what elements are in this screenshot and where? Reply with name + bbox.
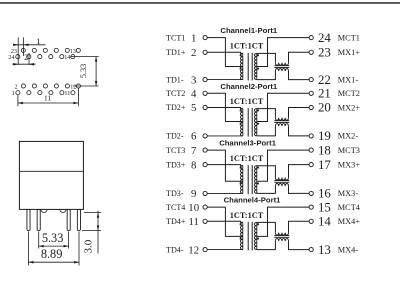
wire choke L4b to pin 13 [289,241,310,250]
choke L4 winding b [275,239,288,241]
T4 primary polarity dot (top half) [240,223,242,225]
pin 14 terminal [309,219,313,223]
svg-text:TD1+: TD1+ [166,48,186,57]
T2 secondary polarity dot (bottom half) [257,123,259,125]
svg-text:22: 22 [318,73,331,87]
T2 primary polarity dot (top half) [240,110,242,112]
pin 19 terminal [309,134,313,138]
wire T2 secondary bottom to choke L2b [257,126,276,136]
svg-text:3: 3 [191,74,196,86]
wire pin 3 to T1 primary bottom [207,79,243,81]
pin 9 terminal [203,191,207,195]
pin 18 terminal [309,148,313,152]
svg-text:12: 12 [188,244,199,256]
T3 primary polarity dot (top half) [240,167,242,169]
pin 2 terminal [203,50,207,54]
transformer T4 core [248,222,252,251]
wire pin 12 to T4 primary bottom [207,249,243,251]
package pin 3 (side view) [67,209,70,230]
svg-text:1CT:1CT: 1CT:1CT [230,97,264,106]
transformer T3 primary winding [240,166,242,194]
svg-text:20: 20 [318,101,331,115]
transformer T2 core [248,108,252,137]
svg-text:Channel3-Port1: Channel3-Port1 [219,139,277,148]
wire T4 secondary bottom to choke L4b [257,241,276,250]
transformer T2 secondary winding [254,109,256,136]
svg-text:1: 1 [12,90,15,97]
wire choke L3a to pin 17 [289,165,310,178]
svg-text:11: 11 [44,94,52,103]
pin 22 terminal [309,78,313,82]
choke L2 winding a [275,118,288,120]
dimension 1 (pin stagger) [13,37,46,65]
svg-text:9: 9 [191,188,196,200]
wire T1 secondary top to choke L1a [257,53,276,62]
svg-text:Channel4-Port1: Channel4-Port1 [224,196,282,205]
wire pin 7 to T3 primary centre tap [207,150,243,181]
transformer T1 core [248,53,252,81]
svg-text:7: 7 [191,145,197,157]
svg-text:13: 13 [318,243,331,257]
svg-text:16: 16 [318,187,331,201]
wire pin 10 to T4 primary centre tap [207,207,243,236]
pin 4 terminal [203,91,207,95]
dimension 3.0 (pin length) [82,211,101,254]
svg-text:1CT:1CT: 1CT:1CT [230,211,264,220]
pin 6 terminal [203,134,207,138]
svg-text:MCT4: MCT4 [338,203,361,212]
package pin 4 (side view) [77,209,80,230]
footprint pad row pins 1..11 [16,91,75,95]
pin 5 terminal [203,105,207,109]
svg-text:11: 11 [64,90,70,97]
svg-text:MCT1: MCT1 [338,33,360,42]
svg-text:8.89: 8.89 [41,247,63,261]
choke L4 winding a [275,233,288,235]
svg-text:MCT2: MCT2 [338,89,360,98]
svg-text:TD4+: TD4+ [166,217,186,226]
pin 7 terminal [203,148,207,152]
standoff bump right [60,209,66,212]
svg-text:MX3+: MX3+ [338,160,361,169]
svg-text:8: 8 [191,159,196,171]
transformer T2 primary winding [240,109,242,136]
svg-text:TD3+: TD3+ [166,160,186,169]
pin 24 terminal [309,36,313,40]
dimension 2 (pin pitch) [13,53,36,65]
choke L2 core [274,121,289,123]
transformer T3 secondary winding [254,166,256,194]
wire pin 2 to T1 primary top [207,52,243,53]
choke L1 winding a [275,63,288,65]
package pin 2 (side view) [37,209,40,230]
T4 secondary polarity dot (top half) [257,223,259,225]
wire pin 6 to T2 primary bottom [207,135,243,137]
svg-text:1: 1 [191,32,196,44]
pin 12 terminal [203,248,207,252]
T2 secondary polarity dot (top half) [257,110,259,112]
wire T4 secondary top to choke L4a [257,222,276,232]
transformer T1 secondary winding [254,53,256,79]
pin 16 terminal [309,191,313,195]
pin 11 terminal [203,219,207,223]
package pin 1 (side view) [27,209,30,230]
standoff bump left [41,209,47,212]
svg-text:MX4-: MX4- [338,245,359,254]
svg-text:10: 10 [188,202,199,214]
svg-text:TD3-: TD3- [166,189,184,198]
wire choke L2b to pin 19 [289,126,310,136]
svg-text:Channel1-Port1: Channel1-Port1 [220,26,278,35]
wire T1 secondary centre tap to pin 24 [257,38,309,67]
svg-text:TD2-: TD2- [166,132,184,141]
transformer T3 core [248,165,252,194]
footprint pad row pins 24..14 [16,55,75,59]
footprint pad row pins 2..12 [21,84,80,88]
dimension 8.89 (outer pin spacing) [29,231,80,265]
wire pin 1 to T1 primary centre tap [207,38,243,67]
svg-text:1CT:1CT: 1CT:1CT [230,41,264,50]
wire choke L3b to pin 16 [289,186,310,194]
svg-text:TCT4: TCT4 [166,203,185,212]
wire T3 secondary bottom to choke L3b [257,186,276,194]
svg-text:14: 14 [64,54,70,61]
svg-text:6: 6 [191,131,197,143]
transformer T4 primary winding [240,222,242,249]
wire pin 4 to T2 primary centre tap [207,93,243,121]
pin 8 terminal [203,163,207,167]
T3 primary polarity dot (bottom half) [240,183,242,185]
choke L1 winding b [275,69,288,71]
svg-text:2: 2 [24,53,28,62]
pin 17 terminal [309,163,313,167]
choke L3 core [274,181,289,183]
svg-text:24: 24 [318,31,331,45]
T1 primary polarity dot (top half) [240,54,242,56]
package lid seam [19,170,83,172]
svg-text:Channel2-Port1: Channel2-Port1 [220,82,278,91]
choke L1 core [274,66,289,68]
T1 secondary polarity dot (top half) [257,54,259,56]
T1 primary polarity dot (bottom half) [240,68,242,70]
pin 3 terminal [203,78,207,82]
svg-text:TD2+: TD2+ [166,103,186,112]
wire pin 8 to T3 primary top [207,165,243,166]
choke L3 winding b [275,184,288,186]
T3 secondary polarity dot (bottom half) [257,183,259,185]
wire pin 11 to T4 primary top [207,221,243,222]
wire T4 secondary centre tap to pin 15 [257,207,309,236]
dimension 11 (footprint width) [18,88,79,106]
wire T1 secondary bottom to choke L1b [257,71,276,80]
wire T2 secondary top to choke L2a [257,109,276,118]
svg-text:4: 4 [191,88,197,100]
footprint pad row pins 23..13 [21,48,80,52]
choke L2 winding b [275,124,288,126]
pin 20 terminal [309,105,313,109]
dimension 5.33 (row gap, footprint) [71,57,99,86]
T4 primary polarity dot (bottom half) [240,238,242,240]
T3 secondary polarity dot (top half) [257,167,259,169]
wire choke L4a to pin 14 [289,221,310,232]
T1 secondary polarity dot (bottom half) [257,68,259,70]
pin 23 terminal [309,50,313,54]
svg-text:2: 2 [191,47,196,59]
choke L3 winding a [275,178,288,180]
svg-text:MX1+: MX1+ [338,48,361,57]
wire T2 secondary centre tap to pin 21 [257,93,309,121]
svg-text:MX1-: MX1- [338,75,359,84]
transformer T1 primary winding [240,53,242,79]
svg-text:TD1-: TD1- [166,75,184,84]
svg-text:23: 23 [318,46,331,60]
svg-text:5.33: 5.33 [79,64,88,78]
pin 1 terminal [203,36,207,40]
svg-text:3.0: 3.0 [83,239,95,253]
svg-text:1CT:1CT: 1CT:1CT [230,154,264,163]
wire pin 5 to T2 primary top [207,108,243,109]
svg-text:MX4+: MX4+ [338,217,361,226]
package body outline [19,141,83,209]
svg-text:18: 18 [318,143,331,157]
svg-text:24: 24 [8,54,14,61]
svg-text:TCT1: TCT1 [166,33,185,42]
choke L4 core [274,236,289,238]
svg-text:21: 21 [318,87,331,101]
pin 13 terminal [309,248,313,252]
svg-text:5.33: 5.33 [42,231,64,245]
wire choke L2a to pin 20 [289,108,310,118]
wire choke L1b to pin 22 [289,71,310,80]
svg-text:11: 11 [188,216,198,228]
svg-text:MX3-: MX3- [338,189,359,198]
svg-text:MX2-: MX2- [338,132,359,141]
svg-text:MX2+: MX2+ [338,103,361,112]
svg-text:5: 5 [191,102,196,114]
svg-text:13: 13 [70,48,76,55]
transformer T4 secondary winding [254,222,256,249]
dimension 5.33 (inner pin spacing) [39,231,69,249]
pin 10 terminal [203,205,207,209]
wire pin 9 to T3 primary bottom [207,192,243,194]
svg-text:17: 17 [318,158,331,172]
wire choke L1a to pin 23 [289,52,310,62]
svg-text:14: 14 [318,215,331,229]
svg-text:1: 1 [36,37,40,46]
svg-text:MCT3: MCT3 [338,146,360,155]
svg-text:TD4-: TD4- [166,245,184,254]
svg-text:TCT2: TCT2 [166,89,185,98]
pin 21 terminal [309,91,313,95]
pin 15 terminal [309,205,313,209]
T4 secondary polarity dot (bottom half) [257,238,259,240]
wire T3 secondary centre tap to pin 18 [257,150,309,181]
svg-text:19: 19 [318,129,331,143]
svg-text:TCT3: TCT3 [166,146,185,155]
wire T3 secondary top to choke L3a [257,166,276,178]
T2 primary polarity dot (bottom half) [240,123,242,125]
svg-text:15: 15 [318,200,331,214]
svg-text:12: 12 [70,83,76,90]
